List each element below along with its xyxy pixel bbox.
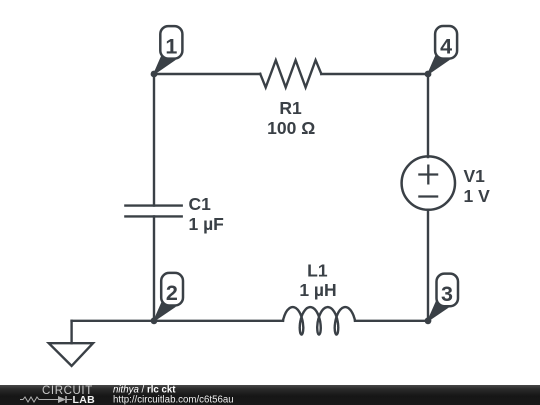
svg-text:3: 3	[441, 282, 453, 306]
svg-text:http://circuitlab.com/c6t56au: http://circuitlab.com/c6t56au	[113, 395, 234, 405]
wire bottom: ground corner to node 2	[72, 320, 154, 322]
capacitor C1 top plate	[125, 204, 181, 206]
wire left: node 1 down to capacitor C1	[153, 74, 155, 206]
node 4 junction dot	[425, 71, 432, 78]
wire top: node 1 to resistor R1 left lead	[154, 73, 260, 75]
node 1 junction dot	[151, 71, 158, 78]
node 1 flag box	[160, 26, 182, 59]
V1 minus sign	[419, 195, 437, 197]
ground symbol triangle	[49, 343, 93, 366]
svg-text:L1: L1	[307, 260, 328, 280]
logo diode bar	[65, 396, 67, 403]
ground wire stem	[70, 321, 72, 343]
svg-text:C1: C1	[189, 194, 212, 214]
capacitor C1 bottom plate	[125, 215, 181, 217]
wire right: node 4 down to voltage source V1	[427, 74, 429, 157]
svg-text:100 Ω: 100 Ω	[267, 118, 315, 138]
node 2 flag box	[161, 273, 183, 306]
wire right: voltage source V1 down to node 3	[427, 210, 429, 321]
logo resistor squiggle and diode	[20, 397, 72, 402]
node 4 flag box	[435, 26, 457, 59]
V1 plus sign	[419, 166, 437, 184]
wire bottom: inductor L1 to node 3	[355, 320, 428, 322]
svg-text:1: 1	[165, 34, 177, 58]
node 3 junction dot	[425, 317, 432, 324]
node 2 flag tail	[154, 302, 175, 321]
svg-text:2: 2	[166, 281, 178, 305]
node 4 flag tail	[428, 55, 449, 75]
voltage source V1 circle	[402, 156, 455, 209]
wire left: capacitor C1 down to node 2	[153, 216, 155, 320]
svg-text:4: 4	[440, 34, 452, 58]
node 3 flag box	[437, 274, 459, 307]
svg-text:1 µH: 1 µH	[299, 280, 336, 300]
svg-text:1 V: 1 V	[464, 186, 491, 206]
wire bottom: node 2 to inductor L1	[154, 320, 283, 322]
svg-text:R1: R1	[279, 98, 302, 118]
svg-text:1 µF: 1 µF	[189, 214, 225, 234]
resistor R1	[260, 60, 321, 87]
inductor L1 coil	[283, 307, 355, 334]
node 2 junction dot	[151, 317, 158, 324]
svg-text:LAB: LAB	[73, 394, 96, 405]
node 1 flag tail	[154, 55, 175, 75]
svg-text:V1: V1	[464, 166, 486, 186]
wire top: resistor R1 right lead to node 4	[321, 73, 428, 75]
logo diode triangle	[58, 396, 66, 403]
node 3 flag tail	[428, 302, 449, 321]
footer bar	[0, 385, 540, 405]
